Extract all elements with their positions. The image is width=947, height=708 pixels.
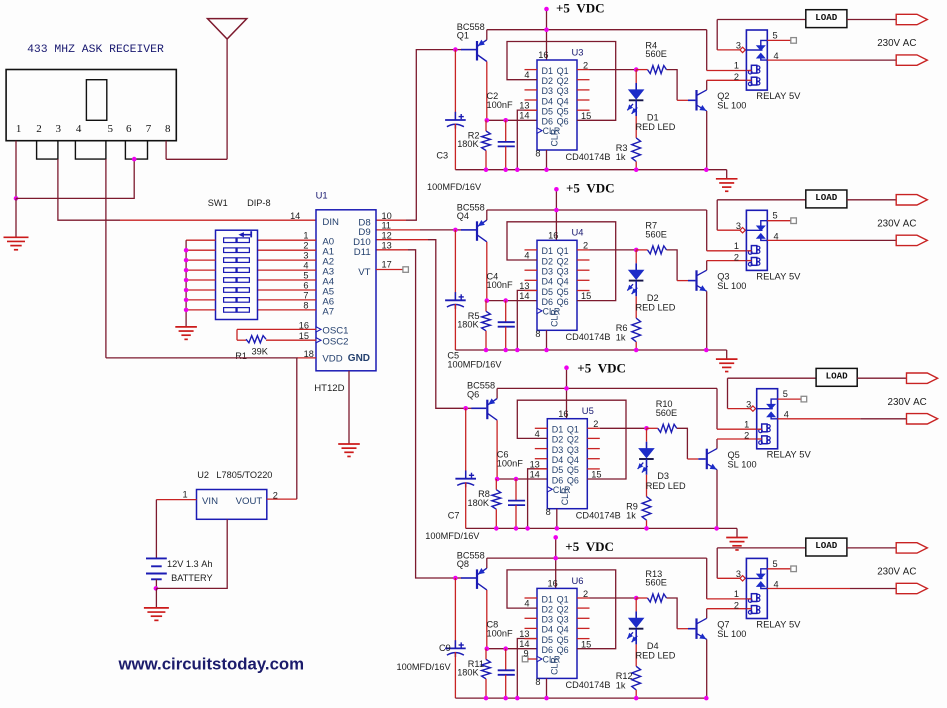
svg-text:C3: C3 [436, 151, 448, 161]
svg-text:16: 16 [538, 50, 548, 60]
svg-text:RELAY 5V: RELAY 5V [767, 449, 812, 460]
svg-text:100nF: 100nF [487, 100, 513, 110]
svg-text:4: 4 [784, 410, 789, 420]
svg-text:Q1: Q1 [557, 66, 569, 76]
svg-text:5: 5 [107, 123, 113, 135]
svg-text:5: 5 [783, 389, 788, 399]
svg-text:Q1: Q1 [557, 594, 569, 604]
svg-text:1: 1 [16, 123, 22, 135]
svg-text:D6: D6 [542, 645, 554, 655]
svg-text:180K: 180K [457, 139, 479, 149]
svg-text:U5: U5 [582, 405, 594, 416]
svg-text:RELAY 5V: RELAY 5V [756, 90, 801, 101]
svg-text:Q8: Q8 [457, 559, 469, 569]
svg-text:14: 14 [519, 291, 529, 301]
svg-text:15: 15 [581, 291, 591, 301]
svg-text:180K: 180K [457, 668, 479, 678]
svg-text:SL 100: SL 100 [717, 101, 746, 111]
svg-text:13: 13 [519, 629, 529, 639]
svg-text:VOUT: VOUT [236, 496, 263, 507]
svg-text:8: 8 [535, 677, 540, 687]
svg-text:11: 11 [382, 221, 392, 231]
svg-text:U6: U6 [572, 575, 584, 586]
svg-text:U2: U2 [197, 470, 209, 480]
svg-text:CD40174B: CD40174B [576, 511, 621, 521]
svg-text:560E: 560E [656, 408, 677, 418]
svg-text:Q6: Q6 [557, 645, 569, 655]
svg-text:15: 15 [581, 111, 591, 121]
svg-text:VDD: VDD [322, 354, 342, 365]
svg-text:1: 1 [734, 589, 739, 599]
svg-text:1: 1 [734, 241, 739, 251]
svg-text:560E: 560E [645, 578, 666, 588]
svg-text:Q4: Q4 [557, 96, 569, 106]
svg-text:6: 6 [303, 281, 308, 291]
svg-text:14: 14 [290, 211, 300, 221]
svg-text:Q2: Q2 [557, 256, 569, 266]
svg-text:180K: 180K [468, 498, 490, 508]
svg-text:Q5: Q5 [567, 465, 579, 475]
svg-text:D3: D3 [542, 86, 554, 96]
svg-text:230V AC: 230V AC [877, 38, 916, 49]
svg-text:1: 1 [744, 419, 749, 429]
svg-text:Q3: Q3 [557, 86, 569, 96]
svg-text:4: 4 [524, 70, 529, 80]
svg-text:8: 8 [546, 507, 551, 517]
svg-text:13: 13 [530, 459, 540, 469]
svg-text:D4: D4 [647, 641, 659, 651]
svg-text:GND: GND [348, 353, 370, 364]
svg-text:LOAD: LOAD [815, 540, 838, 551]
svg-text:OSC2: OSC2 [322, 336, 348, 347]
svg-text:4: 4 [524, 599, 529, 609]
svg-text:D6: D6 [552, 475, 564, 485]
svg-text:14: 14 [530, 469, 540, 479]
svg-text:12V 1.3 Ah: 12V 1.3 Ah [167, 559, 212, 569]
svg-text:D1: D1 [552, 425, 564, 435]
svg-text:LOAD: LOAD [815, 192, 838, 203]
svg-text:www.circuitstoday.com: www.circuitstoday.com [118, 655, 305, 674]
svg-text:2: 2 [593, 419, 598, 429]
svg-text:VIN: VIN [202, 496, 218, 507]
svg-text:D2: D2 [552, 435, 564, 445]
svg-text:CLR: CLR [550, 309, 560, 327]
svg-text:SW1: SW1 [208, 198, 228, 208]
svg-text:1k: 1k [616, 332, 626, 342]
svg-text:16: 16 [548, 231, 558, 241]
svg-text:SL 100: SL 100 [728, 459, 757, 469]
svg-text:433 MHZ ASK RECEIVER: 433 MHZ ASK RECEIVER [27, 44, 164, 56]
svg-text:+5 VDC: +5 VDC [556, 1, 605, 16]
svg-text:4: 4 [774, 231, 779, 241]
svg-text:8: 8 [535, 149, 540, 159]
svg-text:C7: C7 [448, 511, 460, 521]
svg-text:Q4: Q4 [567, 455, 579, 465]
svg-text:1: 1 [182, 490, 187, 500]
svg-text:D2: D2 [542, 256, 554, 266]
svg-text:15: 15 [581, 639, 591, 649]
svg-text:U3: U3 [572, 46, 584, 57]
svg-text:Q2: Q2 [567, 435, 579, 445]
svg-text:U1: U1 [316, 189, 328, 200]
svg-text:CD40174B: CD40174B [566, 332, 611, 342]
svg-text:5: 5 [773, 30, 778, 40]
svg-text:3: 3 [303, 251, 308, 261]
svg-text:Q5: Q5 [557, 287, 569, 297]
svg-text:+5 VDC: +5 VDC [566, 181, 615, 196]
svg-text:D4: D4 [542, 96, 554, 106]
svg-text:BATTERY: BATTERY [171, 573, 213, 583]
svg-text:D6: D6 [542, 117, 554, 127]
svg-text:100MFD/16V: 100MFD/16V [397, 662, 452, 672]
svg-text:CLR: CLR [550, 129, 560, 147]
svg-text:DIP-8: DIP-8 [247, 198, 271, 208]
svg-text:LOAD: LOAD [826, 371, 849, 382]
svg-text:Q2: Q2 [557, 604, 569, 614]
svg-text:VT: VT [358, 267, 370, 278]
svg-text:1k: 1k [616, 680, 626, 690]
svg-text:Q3: Q3 [557, 615, 569, 625]
svg-text:RED LED: RED LED [636, 651, 676, 661]
svg-text:7: 7 [146, 123, 152, 135]
svg-text:D5: D5 [552, 465, 564, 475]
svg-text:15: 15 [591, 470, 601, 480]
svg-text:D1: D1 [647, 113, 659, 123]
svg-text:100nF: 100nF [487, 280, 513, 290]
svg-text:RED LED: RED LED [636, 122, 676, 132]
svg-text:9: 9 [523, 648, 528, 658]
svg-text:CD40174B: CD40174B [566, 680, 611, 690]
svg-text:4: 4 [524, 250, 529, 260]
svg-text:D2: D2 [647, 293, 659, 303]
svg-text:3: 3 [736, 569, 741, 579]
svg-text:3: 3 [736, 41, 741, 51]
svg-text:560E: 560E [645, 230, 666, 240]
svg-text:3: 3 [56, 123, 62, 135]
svg-text:D3: D3 [542, 615, 554, 625]
svg-text:DIN: DIN [322, 217, 339, 228]
svg-text:2: 2 [303, 241, 308, 251]
svg-text:13: 13 [519, 101, 529, 111]
svg-text:D5: D5 [542, 287, 554, 297]
svg-text:Q1: Q1 [567, 425, 579, 435]
svg-text:D1: D1 [542, 246, 554, 256]
svg-text:2: 2 [734, 252, 739, 262]
svg-text:D3: D3 [657, 471, 669, 481]
svg-text:8: 8 [535, 329, 540, 339]
svg-text:16: 16 [547, 579, 557, 589]
svg-text:2: 2 [744, 431, 749, 441]
svg-text:Q3: Q3 [567, 445, 579, 455]
svg-text:1: 1 [303, 231, 308, 241]
svg-text:R1: R1 [235, 351, 247, 361]
svg-text:230V AC: 230V AC [888, 397, 927, 408]
svg-text:3: 3 [746, 399, 751, 409]
svg-text:CD40174B: CD40174B [566, 152, 611, 162]
svg-text:D3: D3 [542, 267, 554, 277]
svg-text:RED LED: RED LED [636, 303, 676, 313]
svg-text:HT12D: HT12D [314, 383, 344, 394]
svg-text:CLR: CLR [560, 488, 570, 506]
svg-text:100MFD/16V: 100MFD/16V [447, 359, 502, 369]
svg-text:100nF: 100nF [487, 628, 513, 638]
svg-text:8: 8 [303, 300, 308, 310]
svg-text:U4: U4 [572, 227, 584, 238]
svg-text:14: 14 [519, 111, 529, 121]
svg-text:5: 5 [303, 271, 308, 281]
svg-text:12: 12 [382, 231, 392, 241]
svg-text:D1: D1 [542, 594, 554, 604]
svg-text:D6: D6 [542, 297, 554, 307]
svg-text:Q3: Q3 [557, 267, 569, 277]
svg-text:16: 16 [558, 409, 568, 419]
svg-text:OSC1: OSC1 [322, 326, 348, 337]
svg-text:CLR: CLR [550, 657, 560, 675]
svg-text:Q4: Q4 [557, 625, 569, 635]
svg-text:100MFD/16V: 100MFD/16V [425, 531, 480, 541]
svg-text:1k: 1k [616, 152, 626, 162]
svg-text:D4: D4 [542, 625, 554, 635]
svg-text:230V AC: 230V AC [877, 219, 916, 230]
svg-text:2: 2 [583, 60, 588, 70]
svg-text:Q6: Q6 [557, 297, 569, 307]
svg-text:Q1: Q1 [557, 246, 569, 256]
svg-text:Q2: Q2 [557, 76, 569, 86]
svg-text:D4: D4 [542, 277, 554, 287]
svg-text:Q4: Q4 [457, 211, 469, 221]
svg-text:4: 4 [774, 579, 779, 589]
svg-text:560E: 560E [645, 49, 666, 59]
svg-text:Q4: Q4 [557, 277, 569, 287]
svg-text:39K: 39K [252, 347, 269, 357]
svg-text:SL 100: SL 100 [717, 629, 746, 639]
svg-text:1: 1 [734, 61, 739, 71]
svg-text:5: 5 [773, 559, 778, 569]
svg-text:2: 2 [583, 589, 588, 599]
svg-text:L7805/TO220: L7805/TO220 [216, 470, 272, 480]
svg-text:+5 VDC: +5 VDC [577, 361, 626, 376]
svg-text:A7: A7 [322, 306, 334, 317]
svg-text:180K: 180K [457, 320, 479, 330]
svg-text:4: 4 [303, 261, 308, 271]
svg-text:RED LED: RED LED [646, 481, 686, 491]
svg-text:+5 VDC: +5 VDC [565, 539, 614, 554]
svg-text:D3: D3 [552, 445, 564, 455]
svg-text:2: 2 [734, 72, 739, 82]
svg-text:230V AC: 230V AC [877, 567, 916, 578]
svg-text:8: 8 [165, 123, 171, 135]
svg-text:17: 17 [382, 259, 392, 269]
svg-text:C9: C9 [439, 643, 451, 653]
svg-text:10: 10 [382, 211, 392, 221]
svg-text:2: 2 [36, 123, 42, 135]
svg-text:4: 4 [774, 51, 779, 61]
svg-text:SL 100: SL 100 [717, 281, 746, 291]
svg-text:1k: 1k [626, 511, 636, 521]
svg-text:13: 13 [519, 281, 529, 291]
svg-text:Q5: Q5 [557, 635, 569, 645]
svg-text:Q6: Q6 [567, 475, 579, 485]
svg-text:2: 2 [583, 241, 588, 251]
svg-text:Q6: Q6 [467, 389, 479, 399]
svg-text:D5: D5 [542, 635, 554, 645]
svg-text:RELAY 5V: RELAY 5V [756, 618, 801, 629]
svg-text:3: 3 [736, 221, 741, 231]
svg-text:100MFD/16V: 100MFD/16V [427, 182, 482, 192]
svg-text:13: 13 [382, 241, 392, 251]
svg-text:Q5: Q5 [557, 107, 569, 117]
svg-text:D5: D5 [542, 107, 554, 117]
svg-text:D2: D2 [542, 604, 554, 614]
svg-text:100nF: 100nF [497, 459, 523, 469]
svg-text:2: 2 [734, 600, 739, 610]
svg-text:D2: D2 [542, 76, 554, 86]
svg-text:5: 5 [773, 211, 778, 221]
svg-text:D4: D4 [552, 455, 564, 465]
svg-text:D11: D11 [354, 247, 371, 258]
svg-text:7: 7 [303, 290, 308, 300]
svg-text:4: 4 [76, 123, 82, 135]
svg-text:LOAD: LOAD [815, 12, 838, 23]
svg-text:Q1: Q1 [457, 31, 469, 41]
svg-text:6: 6 [126, 123, 132, 135]
svg-text:Q6: Q6 [557, 117, 569, 127]
svg-text:D1: D1 [542, 66, 554, 76]
svg-text:4: 4 [535, 429, 540, 439]
svg-text:RELAY 5V: RELAY 5V [756, 270, 801, 281]
